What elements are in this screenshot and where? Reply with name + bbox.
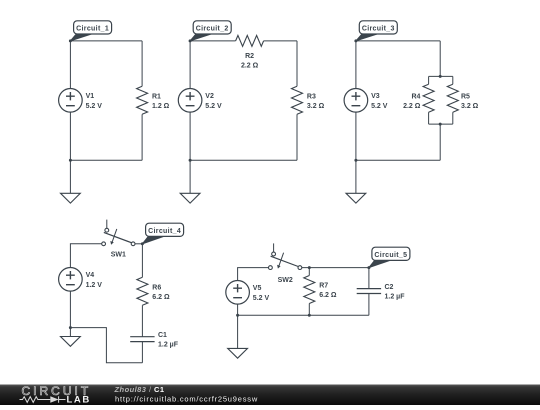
svg-text:R4: R4 <box>411 93 420 100</box>
wire circuit2 top-right <box>264 40 297 42</box>
voltage source V1 <box>59 89 103 113</box>
svg-text:LAB: LAB <box>67 395 91 405</box>
svg-text:5.2 V: 5.2 V <box>205 103 222 110</box>
node circuit3 top-left <box>354 39 357 42</box>
wire circuit4 source to switch <box>70 244 101 268</box>
wire C2 top stub <box>368 268 370 289</box>
wire circuit3 parallel top bus <box>429 75 453 77</box>
capacitor C1 <box>130 332 179 348</box>
voltage source V3 <box>344 89 388 113</box>
wire circuit1 source top <box>69 41 71 89</box>
svg-text:1.2 V: 1.2 V <box>86 282 103 289</box>
node circuit5 C2 top <box>367 266 370 269</box>
resistor R6 <box>137 277 170 305</box>
svg-text:Circuit_5: Circuit_5 <box>374 252 407 259</box>
svg-text:C2: C2 <box>385 284 394 291</box>
svg-text:5.2 V: 5.2 V <box>253 295 270 302</box>
svg-text:V5: V5 <box>253 285 262 292</box>
wire circuit3 right lower <box>439 124 441 160</box>
wire R6 to C1 <box>141 305 143 336</box>
label Circuit_4 <box>142 223 183 244</box>
svg-text:Zhoul83 / C1: Zhoul83 / C1 <box>114 385 165 394</box>
svg-text:1.2 Ω: 1.2 Ω <box>152 103 170 110</box>
wire switch SW2 to C2 branch <box>302 267 369 269</box>
node circuit5 bottom <box>236 314 239 317</box>
ground circuit1 <box>61 193 81 203</box>
wire circuit1 source bottom <box>69 112 71 160</box>
wire R7 top stub <box>308 268 310 276</box>
svg-text:3.2 Ω: 3.2 Ω <box>461 103 479 110</box>
wire circuit4 bottom return <box>70 328 142 363</box>
wire circuit1 right lower <box>141 114 143 160</box>
wire circuit5 source bottom <box>237 304 239 315</box>
wire circuit4 source bottom <box>69 291 71 328</box>
node circuit2 top-left <box>189 39 192 42</box>
svg-text:Circuit_1: Circuit_1 <box>76 26 109 33</box>
wire R4 top stub <box>428 76 430 84</box>
voltage source V2 <box>178 89 222 113</box>
node circuit1 bottom-left <box>69 159 72 162</box>
wire circuit1 bottom <box>70 159 142 161</box>
svg-text:Circuit_2: Circuit_2 <box>196 26 229 33</box>
ground circuit3 <box>346 193 366 203</box>
wire circuit1 top <box>70 40 142 42</box>
resistor R1 <box>137 86 170 114</box>
wire circuit3 source bottom <box>355 112 357 160</box>
node circuit5 R7 top <box>308 266 311 269</box>
svg-text:R3: R3 <box>307 93 316 100</box>
svg-text:V3: V3 <box>371 93 380 100</box>
resistor R3 <box>292 86 325 114</box>
node circuit5 R7 bottom <box>308 314 311 317</box>
svg-text:SW2: SW2 <box>278 277 293 284</box>
wire circuit3 source top <box>355 41 357 89</box>
voltage source V5 <box>226 281 270 305</box>
wire circuit3 top <box>356 40 440 42</box>
switch SW2 <box>269 243 302 283</box>
switch SW1 <box>102 220 135 259</box>
svg-text:5.2 V: 5.2 V <box>86 103 103 110</box>
svg-text:V4: V4 <box>86 272 95 279</box>
wire circuit1 right <box>141 41 143 86</box>
wire circuit3 right upper <box>439 41 441 77</box>
svg-text:R2: R2 <box>245 53 254 60</box>
capacitor C2 <box>357 284 406 300</box>
wire switch SW1 to node <box>135 243 143 245</box>
svg-text:Circuit_3: Circuit_3 <box>362 26 395 33</box>
ground circuit5 <box>228 348 248 358</box>
svg-text:V2: V2 <box>205 93 214 100</box>
wire C1 bottom stub <box>141 342 143 363</box>
wire circuit2 source bottom <box>189 112 191 160</box>
svg-text:6.2 Ω: 6.2 Ω <box>152 294 170 301</box>
svg-text:R6: R6 <box>152 284 161 291</box>
node circuit3 parallel bottom <box>439 123 442 126</box>
resistor R2 <box>236 35 264 69</box>
wire circuit1 ground stem <box>69 160 71 193</box>
label Circuit_5 <box>369 247 410 267</box>
svg-text:1.2 µF: 1.2 µF <box>385 293 406 300</box>
svg-text:V1: V1 <box>86 93 95 100</box>
node circuit2 bottom-left <box>189 159 192 162</box>
svg-text:2.2 Ω: 2.2 Ω <box>403 103 421 110</box>
wire circuit5 ground stem <box>237 315 239 348</box>
svg-text:R5: R5 <box>461 93 470 100</box>
svg-text:Circuit_4: Circuit_4 <box>148 228 181 235</box>
wire circuit3 bottom <box>356 159 440 161</box>
logo diode <box>50 396 58 402</box>
svg-text:http://circuitlab.com/ccrfr25u: http://circuitlab.com/ccrfr25u9essw <box>115 395 258 404</box>
ground circuit2 <box>180 193 200 203</box>
node circuit3 parallel top <box>439 75 442 78</box>
logo resistor zigzag <box>20 397 51 403</box>
node circuit3 bottom-left <box>354 159 357 162</box>
footer bar <box>0 385 540 406</box>
resistor R4 <box>403 84 434 112</box>
resistor R7 <box>304 276 337 304</box>
wire circuit2 source top <box>189 41 191 89</box>
svg-text:C1: C1 <box>158 332 167 339</box>
wire circuit4 ground stem <box>69 328 71 337</box>
label Circuit_2 <box>190 21 231 41</box>
node circuit1 top-left <box>69 39 72 42</box>
svg-text:6.2 Ω: 6.2 Ω <box>319 292 337 299</box>
svg-text:2.2 Ω: 2.2 Ω <box>241 62 259 69</box>
wire circuit4 node to R6 <box>141 244 143 277</box>
wire circuit5 bottom <box>238 314 369 316</box>
svg-text:SW1: SW1 <box>111 252 126 259</box>
wire circuit2 top-left <box>190 40 236 42</box>
wire R4 bottom stub <box>428 112 430 124</box>
wire R5 bottom stub <box>452 112 454 124</box>
label Circuit_3 <box>356 21 397 41</box>
resistor R5 <box>447 84 478 112</box>
svg-text:R1: R1 <box>152 93 161 100</box>
label Circuit_1 <box>70 21 111 41</box>
svg-text:5.2 V: 5.2 V <box>371 103 388 110</box>
wire circuit3 parallel bottom bus <box>429 123 453 125</box>
svg-text:R7: R7 <box>319 283 328 290</box>
wire circuit5 source to switch <box>238 268 269 281</box>
wire R7 bottom stub <box>308 304 310 316</box>
ground circuit4 <box>61 337 81 347</box>
voltage source V4 <box>59 268 103 292</box>
svg-text:3.2 Ω: 3.2 Ω <box>307 103 325 110</box>
wire C2 bottom stub <box>368 294 370 316</box>
wire circuit2 right upper <box>296 41 298 86</box>
node circuit4 switch-right <box>141 242 144 245</box>
wire circuit3 ground stem <box>355 160 357 193</box>
svg-text:1.2 µF: 1.2 µF <box>158 342 179 349</box>
node circuit4 bottom <box>69 326 72 329</box>
wire circuit2 bottom <box>190 159 297 161</box>
wire R5 top stub <box>452 76 454 84</box>
wire circuit2 right lower <box>296 114 298 160</box>
wire circuit2 ground stem <box>189 160 191 193</box>
